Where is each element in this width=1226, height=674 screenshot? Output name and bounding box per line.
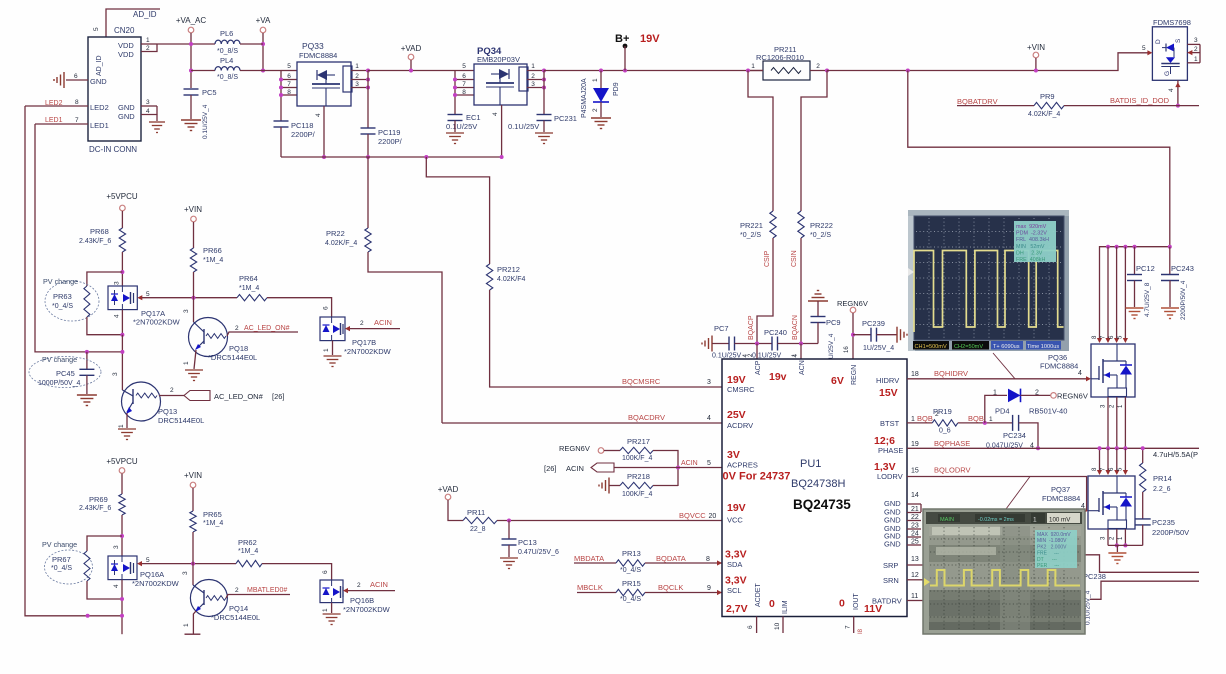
ellipse PV change around PR63: [45, 281, 99, 321]
capacitor PC118: [274, 120, 289, 122]
CN20 pin 8 wire LED2: [25, 105, 88, 107]
junction PQ34 pin8: [453, 93, 457, 97]
svg-text:MBCLK: MBCLK: [577, 583, 603, 592]
svg-text:*0_8/S: *0_8/S: [217, 74, 238, 81]
svg-text:100K/F_4: 100K/F_4: [622, 491, 652, 498]
wire PC119 to loop: [367, 134, 369, 157]
svg-text:DH 2.3V: DH 2.3V: [1016, 250, 1043, 256]
svg-text:5: 5: [93, 27, 100, 31]
svg-text:ACN: ACN: [799, 360, 806, 375]
CN20 pin 6 wire GND: [66, 79, 88, 81]
ground below EC1: [446, 132, 464, 134]
PQ34 pin 6 wire: [455, 79, 474, 81]
transistor PQ18 DRC5144E0L: [189, 318, 228, 357]
ground left of PR218: [608, 478, 610, 494]
ground below PC231: [535, 132, 553, 134]
PQ34 pin 5 wire: [455, 70, 474, 72]
junction PQ33 pin3: [366, 86, 370, 90]
svg-text:3: 3: [182, 571, 189, 575]
svg-text:19V: 19V: [727, 502, 746, 514]
svg-text:*1M_4: *1M_4: [238, 548, 258, 555]
capacitor PC231: [537, 114, 552, 116]
junction source 1: [1123, 543, 1127, 547]
svg-text:PK2 2.000V: PK2 2.000V: [1037, 544, 1067, 550]
wire loop step to PR212: [426, 157, 489, 264]
svg-text:PR63: PR63: [53, 292, 72, 301]
junction bus PC12: [1133, 245, 1137, 249]
svg-text:1: 1: [1194, 56, 1198, 63]
svg-text:1: 1: [1118, 536, 1124, 540]
wire ground to PC7: [712, 343, 729, 345]
svg-text:4: 4: [113, 584, 120, 588]
junction PQ33 pin4 loop: [322, 155, 326, 159]
svg-text:1: 1: [183, 361, 190, 365]
junction PR14 phase: [1141, 446, 1145, 450]
junction PQ34 pin2: [542, 78, 546, 82]
svg-text:6: 6: [462, 73, 466, 80]
PQ34 pin 7 wire: [455, 87, 474, 89]
svg-text:5: 5: [1142, 45, 1146, 52]
power symbol +VIN top right: [1033, 52, 1039, 58]
svg-text:PC118: PC118: [291, 121, 313, 130]
junction PQ17A gate node: [192, 296, 196, 300]
svg-text:+VIN: +VIN: [184, 205, 202, 214]
wire +VA down: [262, 33, 264, 71]
svg-text:0V For 24737: 0V For 24737: [723, 471, 791, 483]
svg-text:BQB: BQB: [968, 414, 984, 423]
svg-text:PC235: PC235: [1152, 518, 1175, 527]
svg-text:PR19: PR19: [933, 407, 952, 416]
svg-text:2: 2: [360, 320, 364, 327]
svg-text:1: 1: [592, 78, 599, 82]
svg-text:8: 8: [462, 89, 466, 96]
wire PR62 to PQ16B: [262, 564, 332, 580]
svg-text:4: 4: [315, 113, 322, 117]
wire ACIN connector to node: [614, 467, 678, 469]
resistor PR9: [1034, 102, 1064, 108]
wire ACPRES to chip: [678, 467, 722, 469]
svg-text:PR69: PR69: [89, 495, 108, 504]
svg-text:BQPHASE: BQPHASE: [934, 439, 970, 448]
wire PQ16A pin4 down: [121, 580, 123, 635]
svg-text:1: 1: [989, 416, 993, 423]
svg-text:BQACP: BQACP: [748, 315, 755, 340]
svg-text:+VA: +VA: [256, 16, 271, 25]
svg-text:*1M_4: *1M_4: [239, 285, 259, 292]
PR211 pin 1 wire: [748, 70, 763, 72]
junction PR22 tap on loop: [366, 155, 370, 159]
junction PQ33 pin2: [366, 78, 370, 82]
svg-text:MIN 52mV: MIN 52mV: [1016, 244, 1045, 250]
svg-text:PV change: PV change: [42, 355, 77, 364]
junction PQ33 pin7: [279, 86, 283, 90]
svg-text:CN20: CN20: [114, 26, 135, 35]
svg-text:MBATLED0#: MBATLED0#: [247, 587, 287, 594]
svg-text:25: 25: [911, 539, 919, 546]
svg-text:PC243: PC243: [1171, 264, 1194, 273]
wire rail2 to PL4: [191, 70, 215, 72]
junction main rail right: [906, 69, 910, 73]
svg-text:2.2_6: 2.2_6: [1153, 486, 1171, 493]
wire PC231 to ground: [543, 121, 545, 133]
svg-text:FRE ---: FRE ---: [1037, 551, 1059, 557]
svg-text:CH2=50mV: CH2=50mV: [954, 344, 983, 350]
svg-text:4: 4: [146, 108, 150, 115]
svg-text:1: 1: [323, 348, 330, 352]
wire PL4 to PQ33: [240, 70, 281, 72]
svg-text:BQDATA: BQDATA: [656, 554, 686, 563]
svg-text:22: 22: [911, 514, 919, 521]
wire CSIN sense from PR211 pin2: [801, 71, 827, 212]
svg-text:0: 0: [769, 598, 775, 610]
svg-text:S: S: [1175, 38, 1182, 43]
svg-text:*2N7002KDW: *2N7002KDW: [344, 347, 392, 356]
wire REGN6V to PR217: [604, 450, 620, 452]
svg-text:5: 5: [146, 557, 150, 564]
oscilloscope photo 2: [923, 509, 1085, 634]
ground below PQ17B: [324, 355, 342, 357]
svg-text:MAX 920.0mV: MAX 920.0mV: [1037, 532, 1071, 538]
off-page connector AC_LED_ON#: [184, 391, 210, 401]
svg-text:5: 5: [1118, 467, 1124, 471]
PQ33 pin 8 wire: [281, 94, 297, 96]
junction phase 1: [1123, 446, 1127, 450]
capacitor PC119: [361, 127, 376, 129]
svg-text:6: 6: [1109, 335, 1115, 339]
svg-text:+5VPCU: +5VPCU: [106, 192, 138, 201]
svg-text:PR212: PR212: [497, 265, 520, 274]
junction PQ33 pin8: [279, 93, 283, 97]
svg-text:7: 7: [287, 81, 291, 88]
junction +VA rail1: [261, 42, 265, 46]
junction PQ34 pin4 loop: [500, 155, 504, 159]
svg-text:PR217: PR217: [627, 437, 650, 446]
junction +VIN rail: [1034, 69, 1038, 73]
power symbol +5VPCU upper: [120, 205, 126, 211]
svg-text:PR14: PR14: [1153, 474, 1172, 483]
resistor PR22: [367, 157, 369, 228]
wire main rail PQ33 to PQ34: [368, 70, 455, 72]
svg-text:DC-IN CONN: DC-IN CONN: [89, 145, 137, 154]
svg-text:I8: I8: [858, 628, 864, 634]
svg-text:CH1=500mV: CH1=500mV: [915, 344, 947, 350]
PQ34 pin 4 wire: [501, 105, 503, 157]
wire PQ16B source to ground: [331, 603, 333, 613]
wire +VIN to PR65: [192, 488, 194, 511]
svg-text:PC240: PC240: [764, 328, 787, 337]
svg-text:SRP: SRP: [883, 561, 898, 570]
svg-text:ACDRV: ACDRV: [727, 421, 753, 430]
svg-text:BQACDRV: BQACDRV: [628, 413, 665, 422]
capacitor PC240: [771, 337, 773, 351]
wire PR67 bottom to node: [87, 581, 122, 599]
ground below PC12: [1126, 307, 1144, 309]
svg-text:ACDET: ACDET: [755, 583, 762, 607]
junction ACN node: [799, 342, 803, 346]
CN20 pin 4 wire GND: [141, 106, 157, 115]
svg-text:4.02K/F_4: 4.02K/F_4: [1028, 111, 1060, 118]
PQ33 pin 7 wire: [281, 87, 297, 89]
svg-text:FRL 408.3kH: FRL 408.3kH: [1016, 237, 1049, 243]
svg-text:2: 2: [1109, 404, 1115, 408]
wire PQ18 emitter to ground: [194, 350, 196, 369]
resistor PR66: [190, 248, 196, 272]
svg-text:12: 12: [911, 572, 919, 579]
ground below PQ37: [1116, 545, 1118, 552]
transistor PQ16B 2N7002KDW: [320, 580, 343, 603]
junction ACP node: [755, 342, 759, 346]
wire PQ14 emitter down: [193, 611, 196, 634]
svg-text:D: D: [1155, 39, 1162, 44]
svg-text:FDMC8884: FDMC8884: [1040, 362, 1078, 371]
wire +5VPCU to PR69: [121, 474, 123, 495]
capacitor PC5: [184, 88, 199, 90]
svg-text:REGN6V: REGN6V: [1057, 392, 1088, 401]
svg-text:PR67: PR67: [52, 555, 71, 564]
wire PC239 to ground: [877, 334, 898, 336]
svg-text:[26]: [26]: [272, 392, 285, 401]
svg-text:EMB20P03V: EMB20P03V: [477, 55, 520, 64]
svg-text:DT ---: DT ---: [1037, 557, 1057, 563]
svg-text:LED1: LED1: [45, 117, 63, 124]
wire PR218 to ACIN node: [653, 485, 678, 487]
svg-text:PU1: PU1: [800, 458, 821, 470]
svg-text:PL6: PL6: [220, 29, 233, 38]
IC PU1 BQ24735 body: [722, 359, 907, 617]
svg-text:-0.02ms = 2ms: -0.02ms = 2ms: [978, 517, 1014, 523]
wire PR217 to ACIN node: [653, 451, 678, 487]
ellipse PV change around PR67: [45, 550, 93, 584]
svg-text:DRC5144E0L: DRC5144E0L: [158, 416, 204, 425]
PQ33 pin 1 wire: [351, 70, 368, 72]
svg-text:ACIN: ACIN: [566, 464, 584, 473]
junction bus 6: [1115, 245, 1119, 249]
junction +VAD rail: [409, 69, 413, 73]
svg-text:BQB: BQB: [917, 414, 933, 423]
svg-text:3: 3: [114, 281, 121, 285]
svg-text:+VIN: +VIN: [1027, 43, 1045, 52]
svg-text:BATDRV: BATDRV: [872, 597, 902, 606]
PQ33 pin 6 wire: [281, 79, 297, 81]
svg-text:3: 3: [531, 81, 535, 88]
wire PC234 to PHASE: [1019, 423, 1038, 448]
ground below PC5: [181, 119, 201, 121]
svg-text:6: 6: [747, 625, 754, 629]
svg-text:13: 13: [911, 556, 919, 563]
chip GND pin 24 stub: [907, 536, 921, 538]
junction PR63 top tap: [120, 270, 124, 274]
PQ18 pin 2 wire AC_LED_ON#: [227, 332, 298, 336]
oscilloscope photo 1: [908, 210, 1069, 351]
svg-text:ACPRES: ACPRES: [727, 461, 758, 470]
svg-text:2: 2: [816, 63, 820, 70]
svg-text:4: 4: [1078, 370, 1082, 377]
wire VDD rail to PL6: [157, 43, 215, 45]
junction PQ33 pin6: [279, 78, 283, 82]
PQ14 pin 2 wire MBATLED0#: [226, 595, 290, 599]
wire PQ17A pin 4 down: [121, 310, 123, 335]
svg-text:MIN -1.080V: MIN -1.080V: [1037, 538, 1067, 544]
junction +VA_AC rail1: [189, 42, 193, 46]
svg-text:9: 9: [707, 585, 711, 592]
wire rail down to output bus: [908, 71, 1170, 247]
wire PR69 to PQ16A: [121, 515, 123, 556]
power symbol REGN6V right: [1051, 393, 1057, 399]
svg-text:VDD: VDD: [118, 50, 134, 59]
svg-text:ILIM: ILIM: [782, 600, 789, 614]
svg-text:11: 11: [911, 593, 918, 600]
PQ33 pin 3 wire: [351, 87, 368, 89]
resistor PR19: [932, 420, 958, 426]
svg-text:23: 23: [911, 523, 919, 530]
wire PR19 to PC234: [958, 422, 1013, 424]
chip SRP pin 13 stub: [907, 564, 923, 566]
svg-text:6: 6: [287, 73, 291, 80]
svg-text:+VIN: +VIN: [184, 471, 202, 480]
svg-text:ACIN: ACIN: [370, 580, 388, 589]
svg-text:GND: GND: [118, 103, 135, 112]
ground below PC243: [1161, 307, 1179, 309]
resistor PR221: [770, 211, 776, 238]
CN20 pin 2 wire VDD: [141, 44, 157, 52]
wire PQ36 pin 7 drop: [1107, 247, 1109, 342]
svg-text:LED1: LED1: [90, 121, 109, 130]
svg-text:2: 2: [357, 582, 361, 589]
svg-text:ACP: ACP: [755, 360, 762, 375]
svg-text:15: 15: [911, 468, 919, 475]
PQ37 pin 2 wire: [1116, 529, 1118, 545]
junction LED2 corner: [86, 614, 90, 618]
svg-text:*0_8/S: *0_8/S: [217, 48, 238, 55]
svg-text:*1M_4: *1M_4: [203, 520, 223, 527]
junction PR67 bottom: [120, 597, 124, 601]
wire LED1 vertical to PQ13 node: [35, 124, 122, 352]
svg-text:PR222: PR222: [810, 221, 833, 230]
wire BQPHASE: [907, 447, 1199, 449]
wire PR63 bottom to node: [87, 317, 123, 335]
svg-text:GND: GND: [90, 77, 107, 86]
svg-text:PR221: PR221: [740, 221, 763, 230]
svg-text:3,3V: 3,3V: [725, 575, 747, 587]
svg-text:100K/F_4: 100K/F_4: [622, 455, 652, 462]
inductor PL4: [215, 67, 240, 71]
svg-text:6V: 6V: [831, 375, 844, 387]
power symbol +VAD top: [408, 54, 414, 60]
connector CN20 DC-IN body: [88, 37, 141, 141]
svg-text:PC234: PC234: [1003, 431, 1026, 440]
wire PR67 branch top: [87, 536, 122, 551]
leader line from scope1 to BQHIDRV: [993, 353, 1015, 379]
PR211 pin 2 wire: [810, 70, 827, 72]
svg-text:6: 6: [74, 73, 78, 80]
junction PQ34 pin7: [453, 86, 457, 90]
svg-text:2: 2: [531, 73, 535, 80]
svg-text:3: 3: [1101, 536, 1107, 540]
svg-text:P4SMAJ20A: P4SMAJ20A: [581, 78, 588, 118]
PQ36 pin 1 wire: [1124, 397, 1126, 448]
svg-text:*2N7002KDW: *2N7002KDW: [343, 605, 391, 614]
svg-text:1: 1: [531, 63, 535, 70]
chip GND pin 14 stub: [907, 503, 921, 505]
svg-text:RB501V-40: RB501V-40: [1029, 407, 1067, 416]
junction bus 5: [1123, 245, 1127, 249]
svg-text:PR15: PR15: [622, 579, 641, 588]
svg-text:BQCMSRC: BQCMSRC: [622, 377, 661, 386]
svg-text:5: 5: [462, 63, 466, 70]
svg-text:AD_ID: AD_ID: [96, 55, 103, 76]
svg-text:2: 2: [146, 45, 150, 52]
svg-text:PQ16B: PQ16B: [350, 596, 374, 605]
junction PQ33 pin1: [366, 69, 370, 73]
wire PQ37 pin 7 drop: [1107, 448, 1109, 473]
resistor PR67: [84, 551, 90, 581]
svg-text:2: 2: [235, 587, 239, 594]
wire PR68 to PQ17A: [121, 252, 123, 286]
PQ34 pin 8 wire: [455, 94, 474, 96]
resistor PR13: [616, 560, 645, 566]
svg-text:0.1U/25V_4: 0.1U/25V_4: [202, 104, 209, 139]
svg-text:1U/25V_4: 1U/25V_4: [863, 345, 894, 352]
wire BQLODRV: [907, 477, 1087, 511]
svg-text:7: 7: [462, 81, 466, 88]
svg-text:5: 5: [146, 291, 150, 298]
svg-text:1: 1: [1033, 517, 1037, 524]
chip GND pin 25 stub: [907, 544, 921, 546]
svg-text:PQ17B: PQ17B: [352, 338, 376, 347]
wire PQ37 pin 6 drop: [1116, 448, 1118, 473]
wire PQ37 pin 8 drop: [1099, 448, 1101, 473]
wire PR22 to BQACDRV: [368, 252, 442, 423]
svg-text:FDMC8884: FDMC8884: [1042, 494, 1080, 503]
PQ17B pin 2 gate wire ACIN: [345, 326, 350, 331]
FDMS7698 pin 2 wire: [1187, 52, 1200, 54]
chip GND pin 21 stub: [907, 512, 921, 514]
svg-text:PQ16A: PQ16A: [140, 570, 164, 579]
svg-text:PER ---: PER ---: [1037, 563, 1060, 569]
svg-text:0.1U/25V: 0.1U/25V: [446, 122, 477, 131]
svg-text:EC1: EC1: [466, 113, 481, 122]
junction source 2: [1115, 543, 1119, 547]
wire SRP from scope to right: [1084, 555, 1199, 573]
FDMS7698 pin 5 arrow: [1147, 50, 1152, 55]
capacitor EC1: [448, 114, 463, 116]
junction bus PC243: [1168, 245, 1172, 249]
wire CSIP sense from PR211 pin1: [748, 71, 773, 212]
svg-text:PR13: PR13: [622, 549, 641, 558]
svg-text:2: 2: [235, 325, 239, 332]
wire REGN node to PC239: [853, 334, 871, 336]
junction PQ34 pin6: [453, 78, 457, 82]
resistor PR11: [463, 517, 497, 523]
svg-text:HIDRV: HIDRV: [876, 376, 899, 385]
svg-text:PV change: PV change: [42, 540, 77, 549]
junction pin4 PR63: [120, 333, 124, 337]
svg-text:RC1206-R010: RC1206-R010: [756, 53, 804, 62]
svg-text:*0_4/S: *0_4/S: [620, 567, 641, 574]
svg-text:BQLODRV: BQLODRV: [934, 466, 971, 475]
wire PC235 to source node: [1142, 525, 1144, 546]
svg-text:FRE 408kH: FRE 408kH: [1016, 257, 1045, 263]
FDMS7698 pin 4 wire: [1177, 80, 1179, 105]
svg-text:LED2: LED2: [90, 103, 109, 112]
svg-text:BQBATDRV: BQBATDRV: [957, 97, 998, 106]
PQ33 pin 2 wire: [351, 79, 368, 81]
svg-text:1: 1: [146, 37, 150, 44]
svg-text:2200P/50V_4: 2200P/50V_4: [1180, 280, 1187, 320]
resistor PR65: [190, 511, 196, 532]
mosfet PQ34 EMB20P03V: [474, 64, 527, 105]
svg-text:1: 1: [1118, 404, 1124, 408]
